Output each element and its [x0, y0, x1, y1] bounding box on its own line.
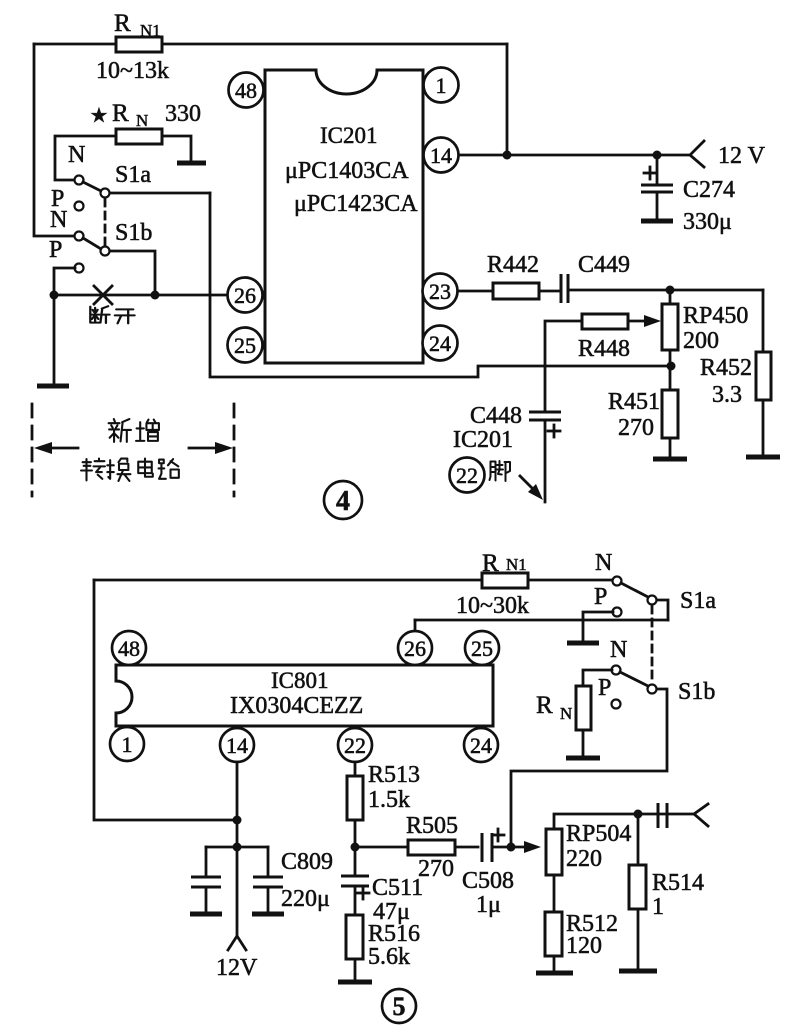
- svg-text:IX0304CEZZ: IX0304CEZZ: [230, 693, 363, 719]
- capacitor C274: [641, 155, 735, 235]
- IC201 box: [265, 70, 423, 363]
- svg-text:N: N: [50, 207, 67, 233]
- switch S1b: [49, 207, 152, 273]
- svg-text:23: 23: [429, 279, 451, 304]
- svg-text:★: ★: [90, 105, 108, 127]
- resistor R513: [347, 762, 420, 847]
- svg-text:24: 24: [470, 733, 492, 758]
- svg-text:5: 5: [393, 992, 406, 1021]
- svg-text:P: P: [594, 584, 607, 610]
- wire S1b pivot down to bus: [110, 251, 155, 295]
- capacitor C809 pair: [191, 847, 333, 912]
- resistor R452: [700, 290, 771, 455]
- svg-text:10~30k: 10~30k: [456, 593, 529, 619]
- svg-text:N: N: [136, 111, 148, 130]
- potentiometer RP450: [662, 290, 748, 366]
- pin 25: [228, 328, 263, 363]
- svg-text:330: 330: [165, 101, 201, 127]
- wire S1b P contact to ground bus: [54, 268, 75, 295]
- ground for R452: [746, 455, 780, 460]
- pin 26: [228, 278, 263, 313]
- svg-text:1.5k: 1.5k: [368, 787, 410, 813]
- svg-text:14: 14: [226, 733, 248, 758]
- capacitor C449: [561, 252, 630, 303]
- ground left: [37, 384, 69, 389]
- wire pin26 riser: [414, 620, 417, 631]
- svg-text:S1a: S1a: [680, 588, 716, 614]
- svg-text:R448: R448: [578, 336, 630, 362]
- IC801 box: [116, 665, 493, 726]
- svg-text:12 V: 12 V: [718, 143, 766, 169]
- node at RP450 bottom / R451: [667, 362, 676, 371]
- svg-text:22: 22: [344, 733, 366, 758]
- coupling capacitor at output: [658, 803, 667, 828]
- ground for R516: [338, 980, 372, 985]
- svg-text:220: 220: [566, 846, 602, 872]
- wire R505 to C508: [455, 846, 478, 849]
- wire bus to pin 26: [54, 294, 227, 297]
- terminal 12V chevron (fig5): [216, 936, 258, 981]
- svg-text:N1: N1: [140, 21, 161, 40]
- label xinzeng zhuanhuan dianlu (Chinese): [81, 419, 179, 481]
- pin 22 (fig5): [338, 728, 372, 762]
- capacitor C448: [470, 403, 561, 502]
- dashed link S1a-S1b: [104, 199, 107, 246]
- svg-text:R: R: [482, 550, 499, 577]
- wire RN left lead down to S1a N contact: [55, 136, 116, 180]
- node at RP450 top: [666, 286, 675, 295]
- terminal 12V chevron: [690, 141, 766, 169]
- dashed new-circuit region right line: [233, 404, 236, 496]
- ground for RN: [177, 161, 206, 166]
- svg-text:26: 26: [404, 636, 426, 661]
- wire pin14 down to 12V: [236, 762, 239, 936]
- resistor R442: [487, 252, 539, 299]
- svg-text:1: 1: [436, 73, 447, 98]
- wire top rail to S1a N contact: [94, 579, 612, 582]
- svg-text:26: 26: [234, 283, 256, 308]
- resistor RN 330: [90, 100, 201, 144]
- ground for C809 right: [252, 912, 284, 917]
- dashed new-circuit region left line: [31, 404, 34, 496]
- svg-text:270: 270: [418, 856, 454, 882]
- switch S1b (fig5): [598, 637, 715, 709]
- node at C274 tap: [653, 151, 662, 160]
- wire RN right lead to ground: [162, 136, 191, 161]
- svg-text:RP504: RP504: [566, 821, 631, 847]
- node C508/RP504 wiper: [507, 843, 516, 852]
- pin 48: [229, 73, 264, 108]
- svg-text:R: R: [114, 10, 131, 37]
- wire top from left vertical to right riser: [34, 43, 507, 46]
- wire P contact to ground: [583, 612, 613, 641]
- wire riser to pin14 rail: [506, 44, 509, 155]
- svg-text:S1b: S1b: [115, 220, 152, 246]
- svg-text:1: 1: [652, 894, 664, 920]
- resistor R514: [629, 814, 704, 969]
- circled figure number 5: [382, 989, 416, 1023]
- wire node to R505: [355, 846, 408, 849]
- node R513/C511/R505: [351, 843, 360, 852]
- svg-text:48: 48: [235, 78, 257, 103]
- switch S1a: [51, 142, 151, 212]
- resistor R505: [406, 813, 458, 882]
- CIRCUIT 4: [32, 10, 780, 519]
- svg-text:14: 14: [430, 143, 452, 168]
- pin 1: [424, 68, 459, 103]
- circled figure number 4: [324, 481, 362, 519]
- svg-text:24: 24: [429, 331, 451, 356]
- pin 14: [424, 138, 459, 173]
- svg-text:μPC1403CA: μPC1403CA: [285, 158, 409, 184]
- wire S1a pivot to riser: [110, 192, 210, 195]
- svg-text:R505: R505: [406, 813, 458, 839]
- arrow left: [34, 442, 78, 454]
- label IC201 pin 22: [450, 427, 514, 493]
- wire bus pin26 to S1a: [415, 619, 668, 622]
- svg-text:P: P: [49, 237, 62, 263]
- X break mark (duan kai): [94, 286, 112, 304]
- wire ground drop: [53, 295, 56, 384]
- resistor R451: [608, 366, 678, 457]
- svg-text:IC201: IC201: [453, 427, 513, 453]
- svg-text:10~13k: 10~13k: [96, 58, 169, 84]
- svg-text:R513: R513: [368, 762, 420, 788]
- ground for R512: [536, 971, 573, 976]
- svg-text:IC201: IC201: [320, 123, 378, 148]
- resistor R516: [346, 915, 420, 980]
- wire S1a output riser down and across to RP450 bottom: [210, 193, 671, 377]
- svg-text:N1: N1: [506, 555, 527, 574]
- terminal output chevron: [694, 804, 708, 826]
- svg-text:200: 200: [683, 328, 719, 354]
- svg-text:270: 270: [618, 415, 654, 441]
- svg-text:N: N: [68, 142, 85, 168]
- svg-text:330μ: 330μ: [683, 209, 732, 235]
- ground for S1a P: [567, 641, 599, 646]
- svg-text:N: N: [560, 704, 572, 723]
- svg-text:IC801: IC801: [271, 668, 329, 693]
- svg-text:N: N: [595, 550, 612, 576]
- svg-text:P: P: [598, 675, 611, 701]
- svg-text:R442: R442: [487, 252, 539, 278]
- node RP504 top / R514: [634, 810, 643, 819]
- wire R442 to C449: [539, 290, 559, 293]
- ground for C274: [641, 219, 673, 224]
- node junction at S1b output: [151, 291, 160, 300]
- dashed link S1a-S1b (fig5): [651, 606, 654, 684]
- svg-text:N: N: [610, 637, 627, 663]
- svg-text:C448: C448: [470, 403, 522, 429]
- svg-text:4: 4: [336, 486, 350, 517]
- svg-text:22: 22: [456, 463, 478, 488]
- wire C449 to R452 corner: [568, 289, 763, 292]
- svg-text:5.6k: 5.6k: [368, 944, 410, 970]
- svg-text:R514: R514: [652, 870, 704, 896]
- resistor RN (fig5): [536, 670, 612, 756]
- pin 48 (fig5): [112, 631, 146, 665]
- svg-text:C508: C508: [462, 868, 514, 894]
- svg-text:25: 25: [471, 636, 493, 661]
- CIRCUIT 5: [94, 550, 716, 1023]
- svg-text:S1a: S1a: [115, 162, 151, 188]
- svg-text:25: 25: [234, 333, 256, 358]
- svg-text:μPC1423CA: μPC1423CA: [294, 191, 418, 217]
- ground for C809 left: [190, 912, 222, 917]
- svg-text:48: 48: [118, 636, 140, 661]
- resistor R512: [545, 911, 618, 971]
- pin 23: [423, 274, 458, 309]
- node at riser/rail: [503, 151, 512, 160]
- svg-text:C274: C274: [683, 177, 735, 203]
- svg-text:220μ: 220μ: [281, 886, 330, 912]
- svg-text:12V: 12V: [216, 955, 258, 981]
- switch S1a (fig5): [594, 550, 716, 617]
- svg-text:RP450: RP450: [683, 303, 748, 329]
- svg-text:120: 120: [566, 933, 602, 959]
- pin 26 (fig5): [398, 631, 432, 665]
- arrow right: [189, 442, 233, 454]
- label duankai (Chinese): [90, 306, 134, 323]
- node pin14 rail: [233, 816, 242, 825]
- svg-text:C809: C809: [281, 849, 333, 875]
- wire S1a pivot to bus: [657, 600, 668, 620]
- wire S1b pivot to C508 junction: [511, 689, 667, 847]
- pin 1 (fig5): [110, 727, 144, 761]
- ground for RN (fig5): [566, 756, 600, 761]
- potentiometer RP504: [546, 814, 694, 912]
- svg-text:R452: R452: [700, 355, 752, 381]
- wire left vertical down to pin14 rail: [94, 580, 237, 820]
- svg-text:R451: R451: [608, 389, 660, 415]
- svg-text:S1b: S1b: [678, 679, 715, 705]
- pin 25 (fig5): [465, 631, 499, 665]
- annotation arrow to pin22 wire: [520, 476, 543, 500]
- resistor RN1: [96, 10, 169, 84]
- svg-text:C511: C511: [372, 875, 423, 901]
- resistor RN1 (fig5): [456, 550, 529, 619]
- svg-text:R: R: [112, 100, 129, 127]
- ground for R451: [653, 457, 687, 462]
- resistor R448 with wiper arrow: [545, 314, 661, 411]
- svg-text:1: 1: [122, 732, 133, 757]
- svg-text:3.3: 3.3: [712, 382, 742, 408]
- svg-text:R: R: [536, 692, 553, 719]
- wiper arrow into RP504: [511, 841, 541, 853]
- node C809 tap: [233, 843, 242, 852]
- pin 24 (fig5): [464, 728, 498, 762]
- node junction at ground branch: [50, 291, 59, 300]
- wire left vertical down to S1b N contact: [34, 44, 75, 236]
- pin 24: [423, 326, 458, 361]
- svg-text:1μ: 1μ: [476, 892, 501, 918]
- svg-text:C449: C449: [578, 252, 630, 278]
- wire pin14 to 12V terminal: [459, 154, 690, 157]
- capacitor C511: [341, 847, 423, 925]
- wire pin23 to R442: [458, 290, 493, 293]
- ground for R514: [619, 969, 657, 974]
- capacitor C508: [462, 829, 514, 918]
- pin 14 (fig5): [220, 728, 254, 762]
